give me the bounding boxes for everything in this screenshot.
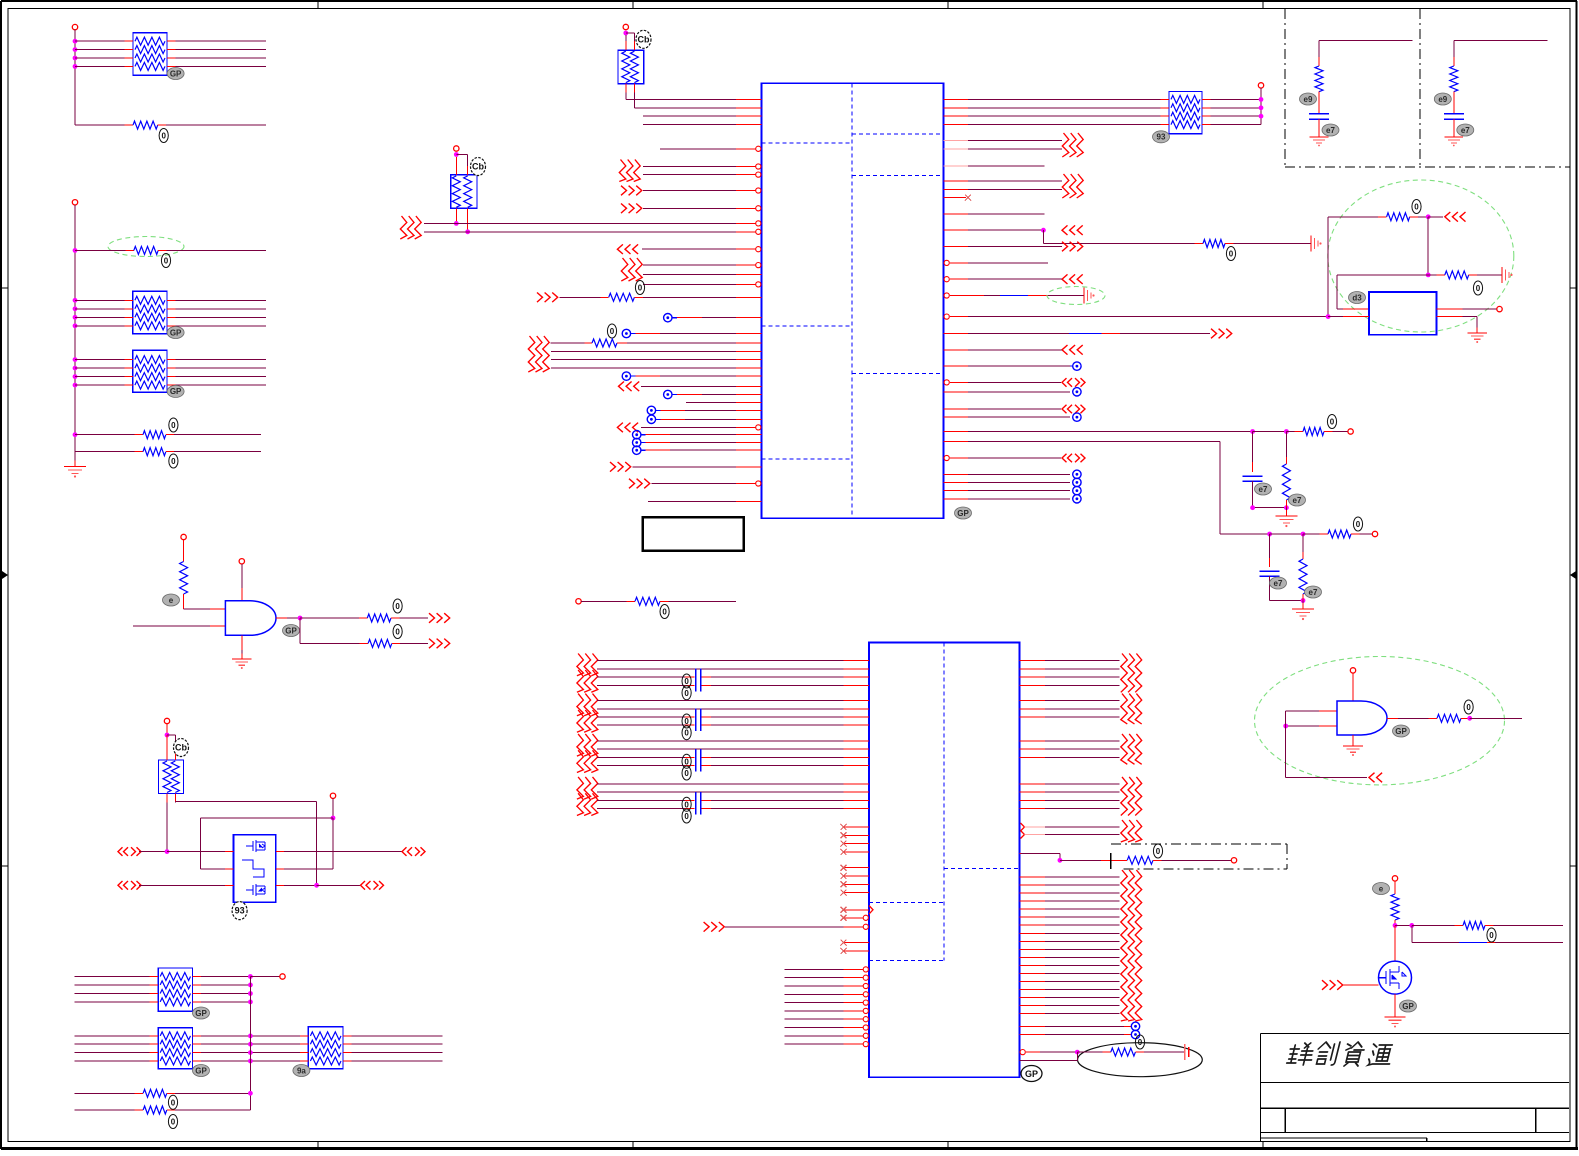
svg-text:0: 0 xyxy=(1489,931,1494,940)
svg-text:e7: e7 xyxy=(1274,579,1283,588)
svg-text:e7: e7 xyxy=(1461,126,1470,135)
svg-text:Cb: Cb xyxy=(175,743,187,753)
svg-text:e7: e7 xyxy=(1259,485,1268,494)
svg-text:0: 0 xyxy=(684,689,689,698)
svg-text:GP: GP xyxy=(195,1009,207,1018)
svg-text:GP: GP xyxy=(285,626,297,635)
svg-text:e7: e7 xyxy=(1293,496,1302,505)
svg-text:e: e xyxy=(1379,884,1384,893)
svg-text:e9: e9 xyxy=(1304,95,1313,104)
svg-text:e7: e7 xyxy=(1309,588,1318,597)
svg-text:0: 0 xyxy=(1138,1038,1143,1047)
svg-text:93: 93 xyxy=(1157,133,1166,142)
svg-text:93: 93 xyxy=(235,906,245,916)
svg-text:0: 0 xyxy=(1330,418,1335,427)
svg-text:0: 0 xyxy=(171,1118,176,1127)
svg-text:0: 0 xyxy=(1156,847,1161,856)
svg-text:0: 0 xyxy=(1229,250,1234,259)
svg-text:0: 0 xyxy=(610,327,615,336)
svg-text:GP: GP xyxy=(1025,1069,1038,1079)
svg-text:0: 0 xyxy=(395,628,400,637)
svg-text:Cb: Cb xyxy=(472,162,484,172)
svg-text:0: 0 xyxy=(161,132,166,141)
svg-text:0: 0 xyxy=(1414,203,1419,212)
svg-text:9a: 9a xyxy=(297,1066,306,1075)
svg-text:d3: d3 xyxy=(1352,293,1362,302)
svg-text:0: 0 xyxy=(1356,520,1361,529)
svg-text:0: 0 xyxy=(684,800,689,809)
svg-text:0: 0 xyxy=(684,769,689,778)
svg-text:e7: e7 xyxy=(1326,126,1335,135)
svg-text:0: 0 xyxy=(662,608,667,617)
svg-text:0: 0 xyxy=(684,729,689,738)
svg-text:GP: GP xyxy=(1402,1002,1414,1011)
svg-text:GP: GP xyxy=(170,69,182,78)
svg-text:GP: GP xyxy=(957,509,969,518)
svg-text:e: e xyxy=(169,596,174,605)
svg-text:GP: GP xyxy=(170,328,182,337)
svg-text:0: 0 xyxy=(1466,703,1471,712)
svg-text:0: 0 xyxy=(171,421,176,430)
svg-text:GP: GP xyxy=(170,387,182,396)
svg-text:0: 0 xyxy=(171,457,176,466)
svg-text:0: 0 xyxy=(684,717,689,726)
svg-text:GP: GP xyxy=(1395,727,1407,736)
svg-text:0: 0 xyxy=(395,602,400,611)
svg-text:GP: GP xyxy=(195,1066,207,1075)
svg-text:0: 0 xyxy=(164,257,169,266)
svg-text:0: 0 xyxy=(638,284,643,293)
svg-text:0: 0 xyxy=(684,677,689,686)
svg-text:Cb: Cb xyxy=(638,34,650,44)
svg-text:0: 0 xyxy=(1476,284,1481,293)
svg-text:0: 0 xyxy=(171,1098,176,1107)
svg-text:0: 0 xyxy=(684,757,689,766)
svg-text:e9: e9 xyxy=(1438,95,1447,104)
svg-text:0: 0 xyxy=(684,812,689,821)
